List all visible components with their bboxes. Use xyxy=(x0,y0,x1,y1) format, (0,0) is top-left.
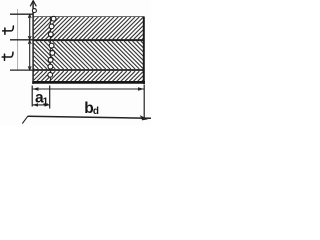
nail circle 2 xyxy=(49,24,54,29)
hatching layer 2 (middle, \ direction) xyxy=(34,41,143,69)
nail circle 3 xyxy=(48,32,53,37)
left extension line below block xyxy=(31,86,33,107)
bottom baseline xyxy=(28,116,151,118)
t dim arrowhead down at middle tick xyxy=(28,36,31,40)
a1 left arrowhead xyxy=(33,103,39,106)
faint vertical reference line left xyxy=(17,9,19,71)
arrowhead at right extension on baseline xyxy=(140,115,148,120)
a1 dimension line xyxy=(32,104,50,106)
nail circle 7 xyxy=(48,64,53,69)
right extension line below block xyxy=(143,85,145,118)
nail circle 5 xyxy=(50,51,55,56)
t dimension line xyxy=(29,14,31,70)
t dimension tick middle xyxy=(10,39,33,41)
block top edge (faint) xyxy=(33,16,144,18)
block bottom edge xyxy=(32,81,145,84)
b_d dimension line xyxy=(32,88,144,90)
t dim arrowhead up at top tick xyxy=(28,14,31,18)
t dim arrowhead up below middle tick xyxy=(28,40,31,44)
cross-section drawing of a nailed multi-layer timber beam xyxy=(0,0,151,125)
t dim arrowhead down at bottom tick xyxy=(28,66,31,70)
bottom baseline left tail xyxy=(22,116,28,123)
arrowhead at top of left edge line xyxy=(30,1,36,7)
hatching layer 1 (top, / direction) xyxy=(34,17,143,39)
b_d left arrowhead xyxy=(33,87,39,91)
layer interface 2 xyxy=(33,69,145,71)
hatching layer 3 (bottom, / direction) xyxy=(34,71,143,81)
block left edge extended above with arrow xyxy=(32,1,34,84)
t dimension tick top xyxy=(10,13,33,15)
label t lower (rotated 90 CCW, drawn as path) xyxy=(2,52,13,60)
nail circle 4 xyxy=(49,43,54,48)
nail circle 6 xyxy=(48,58,53,63)
label t upper (rotated 90 CCW, drawn as path) xyxy=(3,26,14,34)
t dimension tick bottom xyxy=(10,69,33,71)
nail circle 1 xyxy=(51,16,56,21)
nail axis extension line below block xyxy=(49,86,51,109)
small circle on left edge line above block xyxy=(32,9,36,13)
nail circle 8 xyxy=(48,72,53,77)
svg-text:d: d xyxy=(93,106,99,117)
b_d right arrowhead xyxy=(138,87,144,91)
block right edge xyxy=(143,17,145,85)
svg-text:1: 1 xyxy=(43,96,49,107)
nail axis line xyxy=(49,17,51,82)
layer interface 1 xyxy=(33,39,145,41)
a1 right arrowhead xyxy=(45,103,51,106)
